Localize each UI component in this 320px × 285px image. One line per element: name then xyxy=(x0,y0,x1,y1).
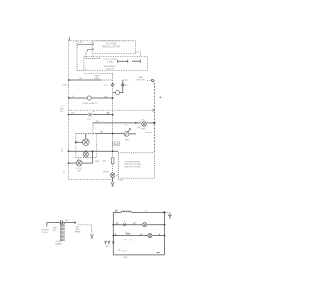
svg-text:BR: BR xyxy=(100,132,103,134)
svg-text:W: W xyxy=(125,239,127,241)
svg-text:R-1: R-1 xyxy=(125,85,128,87)
svg-text:P-3: P-3 xyxy=(104,85,108,87)
svg-text:WH/BK: WH/BK xyxy=(103,171,110,173)
svg-text:R/BK: R/BK xyxy=(123,257,128,259)
svg-text:WH/BK: WH/BK xyxy=(74,232,81,234)
svg-text:MOTOR: MOTOR xyxy=(136,80,145,82)
svg-text:AND SWITCH OPEN: AND SWITCH OPEN xyxy=(125,166,142,169)
svg-text:(BK): (BK) xyxy=(142,128,146,130)
svg-text:AB: AB xyxy=(106,245,109,248)
svg-text:(TW-2): (TW-2) xyxy=(62,84,69,86)
svg-text:L2: L2 xyxy=(85,69,87,71)
svg-text:B/Y: B/Y xyxy=(65,220,69,222)
svg-text:BK: BK xyxy=(60,111,63,113)
svg-text:R-30: R-30 xyxy=(102,160,106,162)
svg-text:SW: SW xyxy=(77,171,80,173)
svg-text:W: W xyxy=(63,172,65,174)
svg-text:W/BK: W/BK xyxy=(95,161,100,163)
svg-text:A: A xyxy=(93,110,95,113)
svg-text:BK: BK xyxy=(80,42,83,44)
svg-text:(BR): (BR) xyxy=(125,140,129,142)
svg-text:SWITCH: SWITCH xyxy=(106,69,115,71)
svg-text:REGULATOR: REGULATOR xyxy=(102,46,120,49)
svg-text:TW: TW xyxy=(96,121,99,123)
svg-text:GUARD: GUARD xyxy=(55,242,63,245)
svg-text:A: A xyxy=(130,238,132,241)
svg-text:(L1): (L1) xyxy=(87,118,91,120)
svg-text:GY/BK: GY/BK xyxy=(118,179,125,181)
svg-text:CB: CB xyxy=(117,249,120,251)
svg-text:FLT: FLT xyxy=(53,230,57,232)
svg-text:W: W xyxy=(61,151,63,153)
svg-text:REG.: REG. xyxy=(95,78,101,80)
svg-text:BR: BR xyxy=(138,128,141,130)
svg-text:T-STAT: T-STAT xyxy=(107,61,115,64)
svg-text:TOD: TOD xyxy=(141,119,146,121)
svg-text:PLUG: PLUG xyxy=(42,232,48,234)
svg-text:FAN: FAN xyxy=(138,76,143,79)
svg-text:P-1: P-1 xyxy=(125,125,128,127)
svg-text:OVEN LIGHTS: OVEN LIGHTS xyxy=(82,103,97,105)
svg-text:R: R xyxy=(135,223,137,225)
svg-text:A: A xyxy=(117,221,119,224)
